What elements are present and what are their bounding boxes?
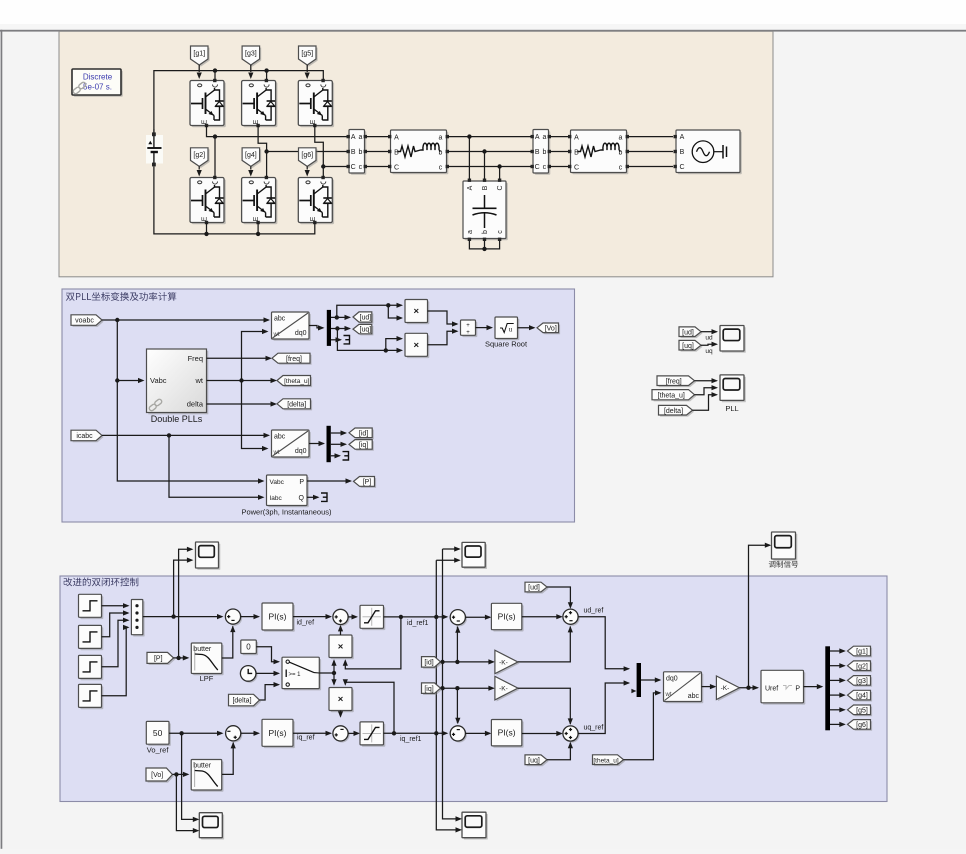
svg-text:Freq: Freq <box>188 354 203 363</box>
svg-text:[id]: [id] <box>424 659 433 666</box>
svg-text:[theta_u]: [theta_u] <box>593 757 618 764</box>
svg-text:b: b <box>358 149 362 156</box>
svg-text:c: c <box>497 230 504 234</box>
svg-text:>= 1: >= 1 <box>289 672 302 678</box>
svg-text:[g2]: [g2] <box>856 663 868 670</box>
svg-text:[g5]: [g5] <box>301 50 313 57</box>
svg-text:[freq]: [freq] <box>666 378 682 385</box>
svg-text:Iabc: Iabc <box>270 495 283 502</box>
svg-text:[Vo]: [Vo] <box>545 325 557 332</box>
svg-text:Power(3ph, Instantaneous): Power(3ph, Instantaneous) <box>241 508 332 517</box>
svg-text:[g4]: [g4] <box>245 152 257 159</box>
svg-text:b: b <box>542 149 546 156</box>
svg-text:dq0: dq0 <box>295 448 307 455</box>
svg-text:[P]: [P] <box>154 656 163 663</box>
svg-text:id_ref: id_ref <box>297 620 315 627</box>
svg-text:LPF: LPF <box>200 674 214 683</box>
svg-text:×: × <box>338 641 344 652</box>
svg-text:B: B <box>680 149 685 156</box>
svg-text:butter: butter <box>193 646 212 653</box>
svg-text:a: a <box>619 135 623 142</box>
svg-text:abc: abc <box>688 693 700 700</box>
svg-text:delta: delta <box>187 400 204 409</box>
svg-text:PLL: PLL <box>725 404 738 413</box>
svg-text:c: c <box>543 164 547 171</box>
svg-text:Q: Q <box>299 495 305 502</box>
svg-text:-K-: -K- <box>499 686 508 693</box>
svg-text:[delta]: [delta] <box>232 698 251 705</box>
svg-text:C: C <box>394 165 399 172</box>
svg-text:E: E <box>253 216 260 221</box>
svg-text:PI(s): PI(s) <box>269 612 287 622</box>
svg-text:[g3]: [g3] <box>856 678 868 685</box>
svg-text:P: P <box>299 479 304 486</box>
svg-text:A: A <box>574 135 579 142</box>
svg-text:Vabc: Vabc <box>150 376 167 385</box>
svg-text:P: P <box>795 685 800 692</box>
svg-text:×: × <box>413 340 419 351</box>
svg-text:B: B <box>482 185 489 190</box>
svg-text:abc: abc <box>274 434 286 441</box>
svg-text:abc: abc <box>274 316 286 323</box>
svg-text:[freq]: [freq] <box>286 356 302 363</box>
svg-text:u: u <box>509 326 513 334</box>
svg-text:PI(s): PI(s) <box>498 728 516 738</box>
svg-text:×: × <box>413 306 419 317</box>
svg-text:E: E <box>202 216 209 221</box>
svg-text:[g3]: [g3] <box>245 50 257 57</box>
svg-text:C: C <box>351 164 356 171</box>
svg-text:icabc: icabc <box>76 433 93 440</box>
svg-text:Discrete: Discrete <box>83 73 113 82</box>
svg-text:dq0: dq0 <box>666 676 678 683</box>
svg-text:[delta]: [delta] <box>287 401 306 408</box>
svg-text:0: 0 <box>246 643 251 652</box>
svg-text:a: a <box>467 230 474 234</box>
svg-text:[uq]: [uq] <box>528 757 540 764</box>
svg-text:-K-: -K- <box>499 659 508 666</box>
svg-text:Vabc: Vabc <box>270 479 285 486</box>
svg-text:c: c <box>439 165 443 172</box>
svg-text:C: C <box>574 165 579 172</box>
svg-text:B: B <box>574 150 579 157</box>
svg-text:[g4]: [g4] <box>856 693 868 700</box>
svg-text:a: a <box>358 134 362 141</box>
svg-text:Square Root: Square Root <box>485 340 528 349</box>
svg-text:voabc: voabc <box>75 318 94 325</box>
svg-text:c: c <box>619 165 623 172</box>
svg-text:B: B <box>394 150 399 157</box>
svg-text:[delta]: [delta] <box>664 408 683 415</box>
svg-text:[ud]: [ud] <box>528 585 540 592</box>
svg-text:+: + <box>466 330 470 336</box>
svg-text:iq_ref1: iq_ref1 <box>400 736 422 743</box>
svg-text:dq0: dq0 <box>295 330 307 337</box>
svg-text:Vo_ref: Vo_ref <box>147 746 170 755</box>
svg-text:C: C <box>535 164 540 171</box>
svg-text:id_ref1: id_ref1 <box>407 620 429 627</box>
svg-text:[uq]: [uq] <box>360 327 372 334</box>
svg-text:C: C <box>497 185 504 190</box>
svg-text:×: × <box>338 694 344 705</box>
svg-text:[Vo]: [Vo] <box>151 772 163 779</box>
svg-text:A: A <box>394 135 399 142</box>
svg-text:b: b <box>482 230 489 234</box>
svg-text:wt: wt <box>273 332 280 338</box>
svg-text:A: A <box>680 134 685 141</box>
svg-text:B: B <box>535 149 540 156</box>
svg-text:PI(s): PI(s) <box>269 728 287 738</box>
svg-text:a: a <box>542 134 546 141</box>
svg-text:PI(s): PI(s) <box>498 612 516 622</box>
svg-text:[id]: [id] <box>359 430 368 437</box>
svg-text:[g6]: [g6] <box>301 152 313 159</box>
svg-text:uq: uq <box>705 348 713 355</box>
svg-text:50: 50 <box>153 728 163 738</box>
svg-text:[g5]: [g5] <box>856 707 868 714</box>
svg-text:Uref: Uref <box>765 685 778 692</box>
svg-text:5e-07 s.: 5e-07 s. <box>83 83 112 92</box>
svg-text:[g1]: [g1] <box>856 649 868 656</box>
svg-text:[ud]: [ud] <box>682 329 694 336</box>
svg-text:wt: wt <box>195 376 204 385</box>
svg-text:C: C <box>679 164 684 171</box>
svg-text:[theta_u]: [theta_u] <box>284 378 309 385</box>
svg-text:[P]: [P] <box>363 479 372 486</box>
svg-text:[iq]: [iq] <box>359 442 368 449</box>
svg-text:A: A <box>535 134 540 141</box>
svg-text:wt: wt <box>273 450 280 456</box>
svg-text:butter: butter <box>193 763 212 770</box>
svg-text:-K-: -K- <box>721 685 730 692</box>
svg-text:[g1]: [g1] <box>193 50 205 57</box>
svg-text:[iq]: [iq] <box>424 686 433 693</box>
svg-text:ud_ref: ud_ref <box>584 608 604 615</box>
svg-text:Double PLLs: Double PLLs <box>151 414 203 424</box>
svg-text:B: B <box>351 149 356 156</box>
svg-text:E: E <box>310 119 317 124</box>
svg-text:[uq]: [uq] <box>682 343 694 350</box>
svg-text:[g2]: [g2] <box>193 152 205 159</box>
svg-text:A: A <box>467 185 474 190</box>
svg-text:a: a <box>439 135 443 142</box>
svg-text:E: E <box>253 119 260 124</box>
svg-text:c: c <box>359 164 363 171</box>
svg-text:ud: ud <box>705 335 713 342</box>
svg-text:wt: wt <box>665 692 672 698</box>
svg-text:[g6]: [g6] <box>856 722 868 729</box>
svg-text:A: A <box>351 134 356 141</box>
svg-text:uq_ref: uq_ref <box>584 724 604 731</box>
svg-text:[ud]: [ud] <box>360 315 372 322</box>
svg-text:iq_ref: iq_ref <box>297 734 315 741</box>
svg-text:[theta_u]: [theta_u] <box>658 392 685 399</box>
svg-text:E: E <box>310 216 317 221</box>
svg-text:+: + <box>466 323 470 329</box>
svg-text:E: E <box>202 119 209 124</box>
